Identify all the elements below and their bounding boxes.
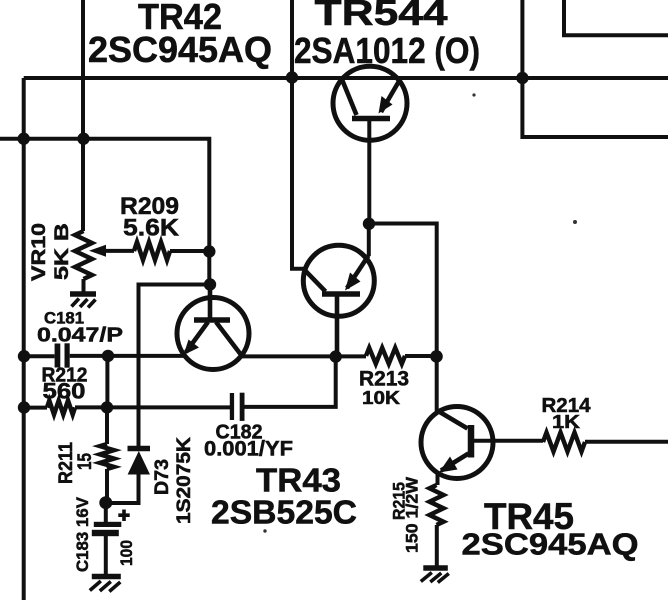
wire VR10 bottom lead — [82, 279, 86, 294]
resistor R215 zigzag (vertical) — [430, 485, 444, 525]
node junction x=335.7 y=356.8 — [330, 350, 342, 362]
svg-text:2SC945AQ: 2SC945AQ — [88, 29, 272, 70]
capacitor C182 plates — [230, 393, 234, 420]
node junction x=436 y=356 — [430, 350, 443, 363]
svg-text:150 1/2W: 150 1/2W — [403, 476, 422, 553]
ground under R215 — [421, 568, 449, 583]
wire wiper to R209 — [104, 249, 134, 253]
TR42 base lead into bar — [208, 285, 213, 319]
node junction x=106 y=503 — [99, 496, 112, 509]
node junction x=107 y=407 — [101, 401, 113, 413]
TR42 base bar — [194, 317, 230, 323]
wire top-right corner step — [564, 0, 668, 35]
wire R214 right lead — [585, 440, 668, 444]
TR544 base lead down — [367, 120, 371, 224]
node junction x=24 y=356 — [18, 350, 30, 362]
C183 plus sign — [118, 510, 129, 522]
TR43 base bar — [322, 291, 360, 297]
TR42 collector diagonal — [216, 322, 240, 354]
wire C181 to TR42 emitter — [70, 354, 186, 358]
svg-text:5.6K: 5.6K — [123, 215, 180, 242]
TR42 emitter diagonal — [186, 322, 208, 352]
diode D73 cathode bar — [128, 446, 151, 452]
transistor TR43 circle (middle) — [303, 245, 374, 316]
svg-text:0.047/P: 0.047/P — [37, 325, 123, 347]
resistor R209 5.6K zigzag — [134, 242, 170, 260]
wire C183 top lead — [104, 503, 108, 522]
wire R212 left lead from bus — [24, 406, 47, 410]
wire left vertical bus x=24 — [22, 78, 26, 600]
svg-text:5K B: 5K B — [52, 223, 73, 280]
transistor TR42 circle — [177, 298, 249, 370]
wire R209 right lead to node — [170, 249, 209, 253]
svg-text:10K: 10K — [362, 388, 400, 408]
speck noise — [472, 93, 475, 96]
TR544 emitter arrowhead — [379, 96, 393, 114]
ground under C183 — [90, 577, 121, 592]
wire top horizontal bus y=78 — [24, 76, 668, 80]
node junction x=24 y=407 — [18, 401, 30, 413]
wire node to D73 top corner — [139, 285, 211, 448]
wire C182 right with riser up to node — [245, 357, 336, 407]
wire TR42 collector to mid node and on to R213 — [240, 354, 366, 358]
svg-text:100: 100 — [117, 540, 136, 566]
svg-text:D73: D73 — [152, 459, 173, 495]
wire left bus to C181 — [24, 354, 55, 358]
node junction x=108 y=356 — [102, 350, 114, 362]
svg-text:15: 15 — [75, 453, 96, 470]
VR10 wiper arrow — [89, 245, 106, 257]
svg-text:VR10: VR10 — [29, 223, 50, 281]
ground under VR10 — [70, 294, 96, 308]
wire R211 bottom lead — [105, 469, 109, 503]
svg-text:R211: R211 — [56, 442, 77, 484]
wire horizontal y=139 from left edge with corner down to TR42 base node — [0, 139, 209, 285]
TR45 emitter arrowhead — [439, 457, 458, 473]
TR45 emitter diagonal — [441, 454, 469, 471]
transistor TR544 circle — [333, 66, 407, 140]
node junction x=369 y=224 — [363, 218, 375, 230]
resistor R212 560 zigzag — [47, 401, 75, 415]
TR544 base bar — [352, 116, 390, 122]
resistor R213 10K zigzag — [366, 348, 405, 364]
wire R215 bottom lead — [435, 525, 439, 566]
svg-text:1S2075K: 1S2075K — [174, 437, 195, 524]
capacitor C183 plates (electrolytic) — [94, 522, 122, 527]
svg-text:2SA1012 (O): 2SA1012 (O) — [294, 30, 480, 71]
wire node right and down to R213 node — [369, 224, 437, 412]
node junction on top bus at x=522 — [516, 72, 528, 84]
TR544 left diagonal — [342, 80, 357, 116]
wire vertical between node y=356 and node y=407 — [105, 356, 109, 408]
node junction TR42 base x=210 — [204, 278, 216, 290]
wire R213 to node x=436 — [405, 354, 437, 358]
TR45 base diagonal — [437, 411, 467, 429]
wire vertical between labels down to TR43 base — [292, 0, 304, 269]
resistor R214 1K zigzag — [543, 433, 585, 452]
TR43 base diagonal — [304, 269, 326, 292]
svg-text:2SB525C: 2SB525C — [211, 494, 357, 531]
svg-text:1K: 1K — [552, 412, 580, 432]
wire R211 top lead — [105, 408, 109, 445]
svg-text:C183 16V: C183 16V — [73, 496, 92, 572]
node junction R209/wiper line x=209 — [203, 245, 215, 257]
svg-text:0.001/YF: 0.001/YF — [204, 438, 293, 461]
wire D73 down and corner left to C183 node — [106, 474, 139, 503]
transistor TR45 circle — [421, 407, 493, 479]
TR42 emitter arrowhead — [184, 340, 200, 356]
svg-text:560: 560 — [43, 379, 86, 404]
resistor R211 15 (vertical) — [100, 444, 114, 469]
TR45 collector lead right — [471, 439, 543, 443]
node junction on top bus at x=292 — [286, 71, 298, 83]
wire vertical x=522 with corner right at y=137 — [522, 0, 668, 137]
TR45 base bar (vertical) — [468, 425, 475, 458]
capacitor C181 plates — [55, 344, 61, 368]
potentiometer VR10 5K B zigzag — [75, 231, 92, 279]
TR43 collector lead down — [335, 297, 340, 354]
TR43 emitter arrowhead — [345, 273, 361, 291]
wire TR45 emitter down — [436, 472, 440, 486]
diode D73 triangle — [128, 451, 150, 475]
node junction y=139 x=24 — [18, 133, 30, 145]
wire vertical at left of TR42 label down to VR10 — [81, 0, 85, 231]
TR544 right diagonal — [381, 80, 400, 113]
wire TR544 emitter node down to TR43 — [367, 224, 371, 256]
svg-text:2SC945AQ: 2SC945AQ — [462, 527, 639, 562]
wire C183 bottom lead — [104, 536, 108, 575]
node junction y=139 x=83 — [77, 133, 89, 145]
svg-text:TR544: TR544 — [315, 0, 448, 33]
wire R212 to C182 — [75, 405, 230, 409]
TR43 emitter diagonal from top node — [347, 256, 369, 289]
